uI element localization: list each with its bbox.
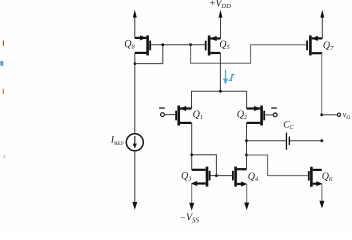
transistor Q8 (PMOS, leads left, gate right) bbox=[135, 35, 151, 55]
wire: left input lead bbox=[165, 114, 176, 116]
wire: Q6 source to VSS bbox=[321, 184, 323, 203]
input overbar minus (right) bbox=[271, 107, 277, 108]
input terminal circle (right) bbox=[273, 113, 277, 117]
svg-text:Q4: Q4 bbox=[248, 171, 259, 183]
svg-text:+VDD: +VDD bbox=[210, 0, 231, 10]
wire: Q8 diode connection loop bbox=[135, 45, 163, 64]
wire: Q3 diode loop bbox=[192, 155, 217, 176]
svg-text:Q2: Q2 bbox=[237, 110, 248, 122]
capacitor Cc plates bbox=[286, 133, 290, 150]
svg-text:Q3: Q3 bbox=[181, 171, 192, 183]
wire: rail to Q2 source bbox=[246, 91, 248, 108]
transistor Q7 (PMOS, leads right, gate left) bbox=[306, 35, 322, 55]
node: Q1 drain / Q3 diode junction bbox=[190, 153, 193, 156]
node: Q8 drain junction bbox=[134, 62, 137, 65]
svg-text:Q7: Q7 bbox=[323, 41, 334, 53]
wire: Q8 drain down to IREF node bbox=[134, 53, 136, 64]
node: rail center bbox=[219, 90, 222, 93]
svg-text:CC: CC bbox=[283, 121, 294, 132]
edge speck 1 bbox=[3, 41, 4, 47]
transistor Q1 (PMOS, leads right, gate left) bbox=[175, 106, 191, 126]
VSS arrow below IREF bbox=[132, 202, 137, 210]
input terminal circle (left) bbox=[161, 113, 165, 117]
transistor Q5 (PMOS, leads right, gate left) bbox=[205, 36, 221, 56]
svg-text:Q6: Q6 bbox=[322, 171, 333, 183]
output terminal circle bbox=[337, 113, 340, 116]
wire: right input lead bbox=[265, 114, 273, 116]
VSS arrow below Q3 bbox=[189, 203, 194, 211]
wire: output lead bbox=[322, 114, 337, 116]
wire: Q1 drain down to Q3 bbox=[191, 123, 193, 170]
node: Cc right junction bbox=[320, 139, 323, 142]
transistor Q4 (NMOS, leads right, gate left) bbox=[232, 167, 247, 187]
svg-text:Q1: Q1 bbox=[193, 110, 203, 122]
node: gate line junction bbox=[215, 174, 218, 177]
current source IREF circle bbox=[126, 134, 143, 151]
wire: Q4 drain up to Q2 drain bbox=[246, 123, 248, 169]
transistor Q3 (NMOS, leads left, gate right) bbox=[191, 167, 211, 187]
power VDD arrow above Q5 bbox=[219, 10, 223, 39]
wire: Q7 drain to output node bbox=[321, 53, 323, 115]
capacitor Cc left wire bbox=[247, 140, 286, 142]
power VDD arrow above Q7 bbox=[320, 10, 324, 39]
input overbar minus (left) bbox=[159, 107, 165, 108]
wire: diff pair source rail bbox=[191, 90, 247, 92]
wire: rail to Q1 source bbox=[191, 91, 193, 108]
power VDD arrow above Q8 bbox=[133, 10, 137, 38]
current source IREF arrow bbox=[133, 136, 137, 149]
node: Q7 gate tap bbox=[189, 43, 192, 46]
svg-text:−VSS: −VSS bbox=[180, 212, 199, 224]
VSS arrow below Q4 bbox=[244, 203, 249, 211]
wire: IREF branch upper bbox=[134, 64, 136, 134]
wire: Q4 source to VSS bbox=[246, 184, 248, 204]
capacitor Cc right wire bbox=[290, 140, 322, 142]
node: output junction bbox=[320, 113, 323, 116]
wire: Q3 source to VSS bbox=[191, 184, 193, 205]
label I (blue) bbox=[229, 74, 235, 80]
wire: Q3-Q4 gate line bbox=[211, 175, 233, 177]
wire: to Q6 gate bbox=[247, 155, 308, 176]
edge speck 2 bbox=[3, 89, 4, 95]
wire: Q5 drain to diff pair bbox=[219, 53, 221, 91]
node: Cc left junction bbox=[245, 139, 248, 142]
node: Q6 gate tap junction bbox=[245, 154, 248, 157]
svg-text:IREF: IREF bbox=[110, 136, 124, 147]
VSS arrow below Q6 bbox=[319, 201, 324, 209]
edge speck 3 bbox=[4, 155, 6, 159]
edge speck blue bbox=[0, 61, 3, 66]
node: diode loop on gate line bbox=[161, 43, 164, 46]
current arrow I (blue) bbox=[223, 70, 228, 85]
transistor Q2 (PMOS, leads left, gate right) bbox=[247, 106, 265, 126]
svg-text:vO: vO bbox=[343, 110, 351, 121]
svg-text:Q8: Q8 bbox=[124, 39, 135, 51]
wire: bias detour to Q7 gate bbox=[191, 45, 307, 64]
transistor Q6 (NMOS, leads right, gate left) bbox=[308, 167, 323, 187]
svg-text:Q5: Q5 bbox=[219, 40, 230, 52]
wire: IREF branch lower to VSS bbox=[134, 151, 136, 204]
wire: bias gate line Q8 to Q5 bbox=[151, 44, 205, 46]
